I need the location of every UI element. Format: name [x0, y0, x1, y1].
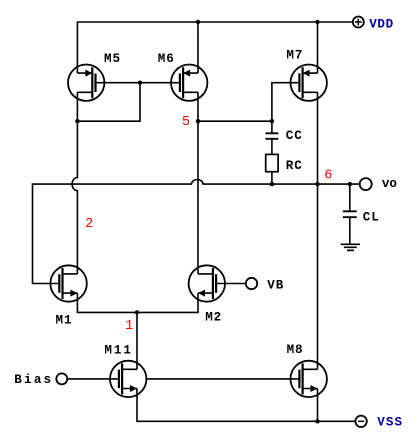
- svg-text:M1: M1: [56, 313, 72, 327]
- svg-text:M5: M5: [104, 52, 120, 66]
- svg-text:CL: CL: [363, 210, 379, 224]
- svg-text:M6: M6: [158, 52, 174, 66]
- svg-text:Bias: Bias: [14, 373, 51, 387]
- svg-text:M8: M8: [287, 343, 303, 357]
- svg-text:M7: M7: [286, 49, 302, 63]
- svg-text:M11: M11: [104, 344, 131, 358]
- svg-text:6: 6: [324, 169, 332, 184]
- svg-text:VB: VB: [267, 279, 283, 293]
- svg-text:5: 5: [182, 115, 190, 130]
- svg-text:CC: CC: [286, 129, 302, 143]
- svg-text:vo: vo: [382, 177, 397, 191]
- svg-text:2: 2: [85, 217, 93, 232]
- svg-text:VSS: VSS: [377, 416, 402, 430]
- svg-text:VDD: VDD: [369, 18, 393, 32]
- svg-text:RC: RC: [286, 159, 302, 173]
- svg-text:1: 1: [125, 319, 133, 334]
- svg-text:M2: M2: [205, 310, 221, 324]
